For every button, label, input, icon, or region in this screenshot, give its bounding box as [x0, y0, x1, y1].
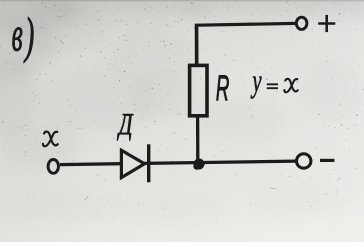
label x (input) [43, 132, 58, 147]
diode Д (triangle) [121, 150, 144, 177]
diode Д cathode bar [147, 144, 150, 182]
label в) (sub-figure letter) [12, 17, 33, 63]
label Д [117, 114, 133, 140]
label - [320, 159, 334, 162]
label R [216, 76, 228, 101]
resistor R [190, 65, 207, 115]
label + [318, 15, 335, 32]
terminal - (negative output terminal) [297, 154, 311, 168]
node (junction dot) [193, 159, 204, 170]
terminal + (positive output terminal) [296, 17, 307, 29]
wire resistor bottom to node [196, 114, 199, 161]
wire input to diode [60, 162, 121, 166]
wire top (+ terminal to corner, corner down to resistor) [197, 23, 297, 65]
label y = x [251, 77, 298, 99]
terminal x (input terminal) [48, 160, 58, 174]
wire diode to - terminal [144, 161, 296, 163]
